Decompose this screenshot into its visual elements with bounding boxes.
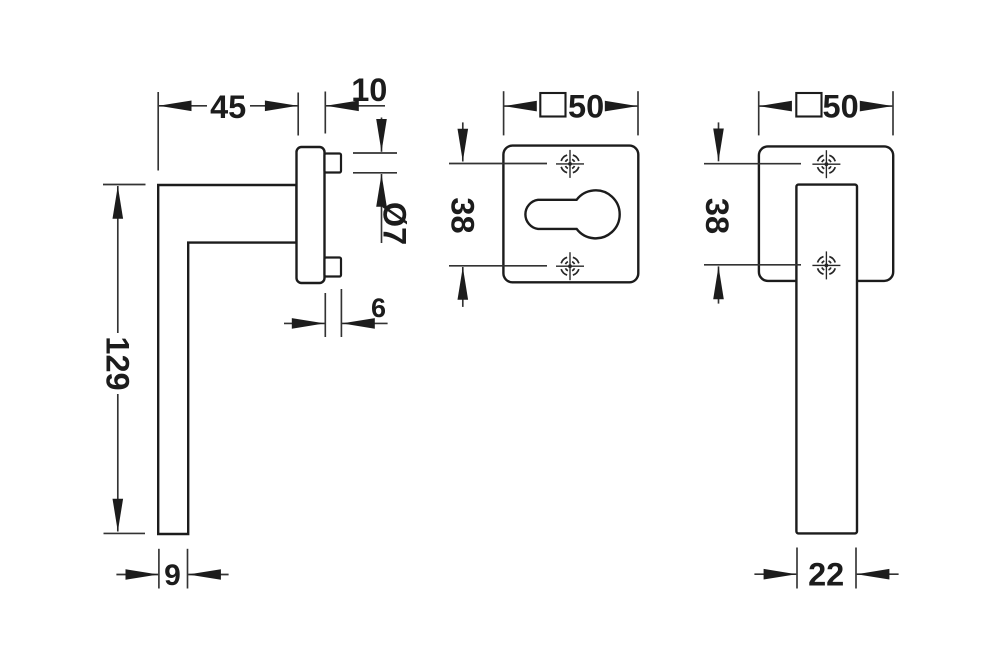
drill crosshair top [556,150,584,178]
bottom fixing pin [325,258,342,277]
svg-text:Ø7: Ø7 [377,202,413,245]
svg-text:6: 6 [371,293,386,323]
dimension 6: extension lines [324,293,326,337]
screw mark leader bottom right [704,264,801,266]
dimension 22: left arrow pointing right [754,573,796,575]
rosette plate side view [297,147,325,283]
svg-text:50: 50 [568,89,604,125]
top fixing pin [325,154,342,173]
dimension 129: dimension line and arrows [117,186,119,333]
screw mark leader bottom [449,265,547,267]
dimension 129: extension lines [103,184,146,186]
dimension 9: left arrow pointing right [116,574,158,576]
dimension 9: right arrow pointing left [188,574,229,576]
drill crosshair top right [812,150,840,178]
dimension 50 right: square symbol [796,93,821,117]
svg-text:9: 9 [164,559,181,592]
svg-text:38: 38 [444,197,480,233]
handle lever outline (side view) [158,185,296,534]
dimension 10: extension line [324,92,326,134]
svg-text:129: 129 [99,336,135,390]
dimension 50 middle: extension lines [503,91,505,135]
dimension 45: dimension line and arrows [159,105,207,107]
screw mark leader top right [704,163,801,165]
dimension 50 middle: arrows [504,105,536,107]
dimension 22: right arrow pointing left [857,573,899,575]
dimension Ø7: lower arrow pointing up [381,174,383,243]
dimension 9: extension lines [158,549,160,589]
svg-text:10: 10 [351,72,387,108]
dimension 38 middle: lower arrow pointing up [462,267,464,307]
dimension 50 right: extension lines [758,91,760,135]
svg-text:50: 50 [823,89,859,125]
svg-text:22: 22 [808,557,844,593]
dimension 50 middle: square symbol [540,93,565,117]
dimension Ø7: extension lines [353,152,397,154]
dimension 6: right arrow pointing left [342,322,388,324]
dimension Ø7: upper arrow pointing down [381,118,383,152]
dimension 45: extension lines [157,92,159,171]
euro profile cylinder keyhole [525,190,619,238]
dimension 38 right: upper arrow pointing down [718,122,720,161]
screw mark leader top [449,163,547,165]
dimension 38 right: lower arrow pointing up [718,266,720,303]
drill crosshair bottom [556,252,584,280]
handle grip front view [796,185,857,534]
drill crosshair bottom right [812,251,840,279]
dimension 10: dimension line and arrow [326,105,385,107]
handle square rosette front [759,146,893,281]
dimension 22: extension lines [796,548,798,589]
dimension 38 middle: upper arrow pointing down [462,122,464,161]
dimension 50 right: arrows [759,105,791,107]
svg-text:45: 45 [210,89,246,125]
svg-text:38: 38 [699,198,735,234]
escutcheon square rosette [503,146,638,283]
dimension 6: left arrow pointing right [284,322,325,324]
